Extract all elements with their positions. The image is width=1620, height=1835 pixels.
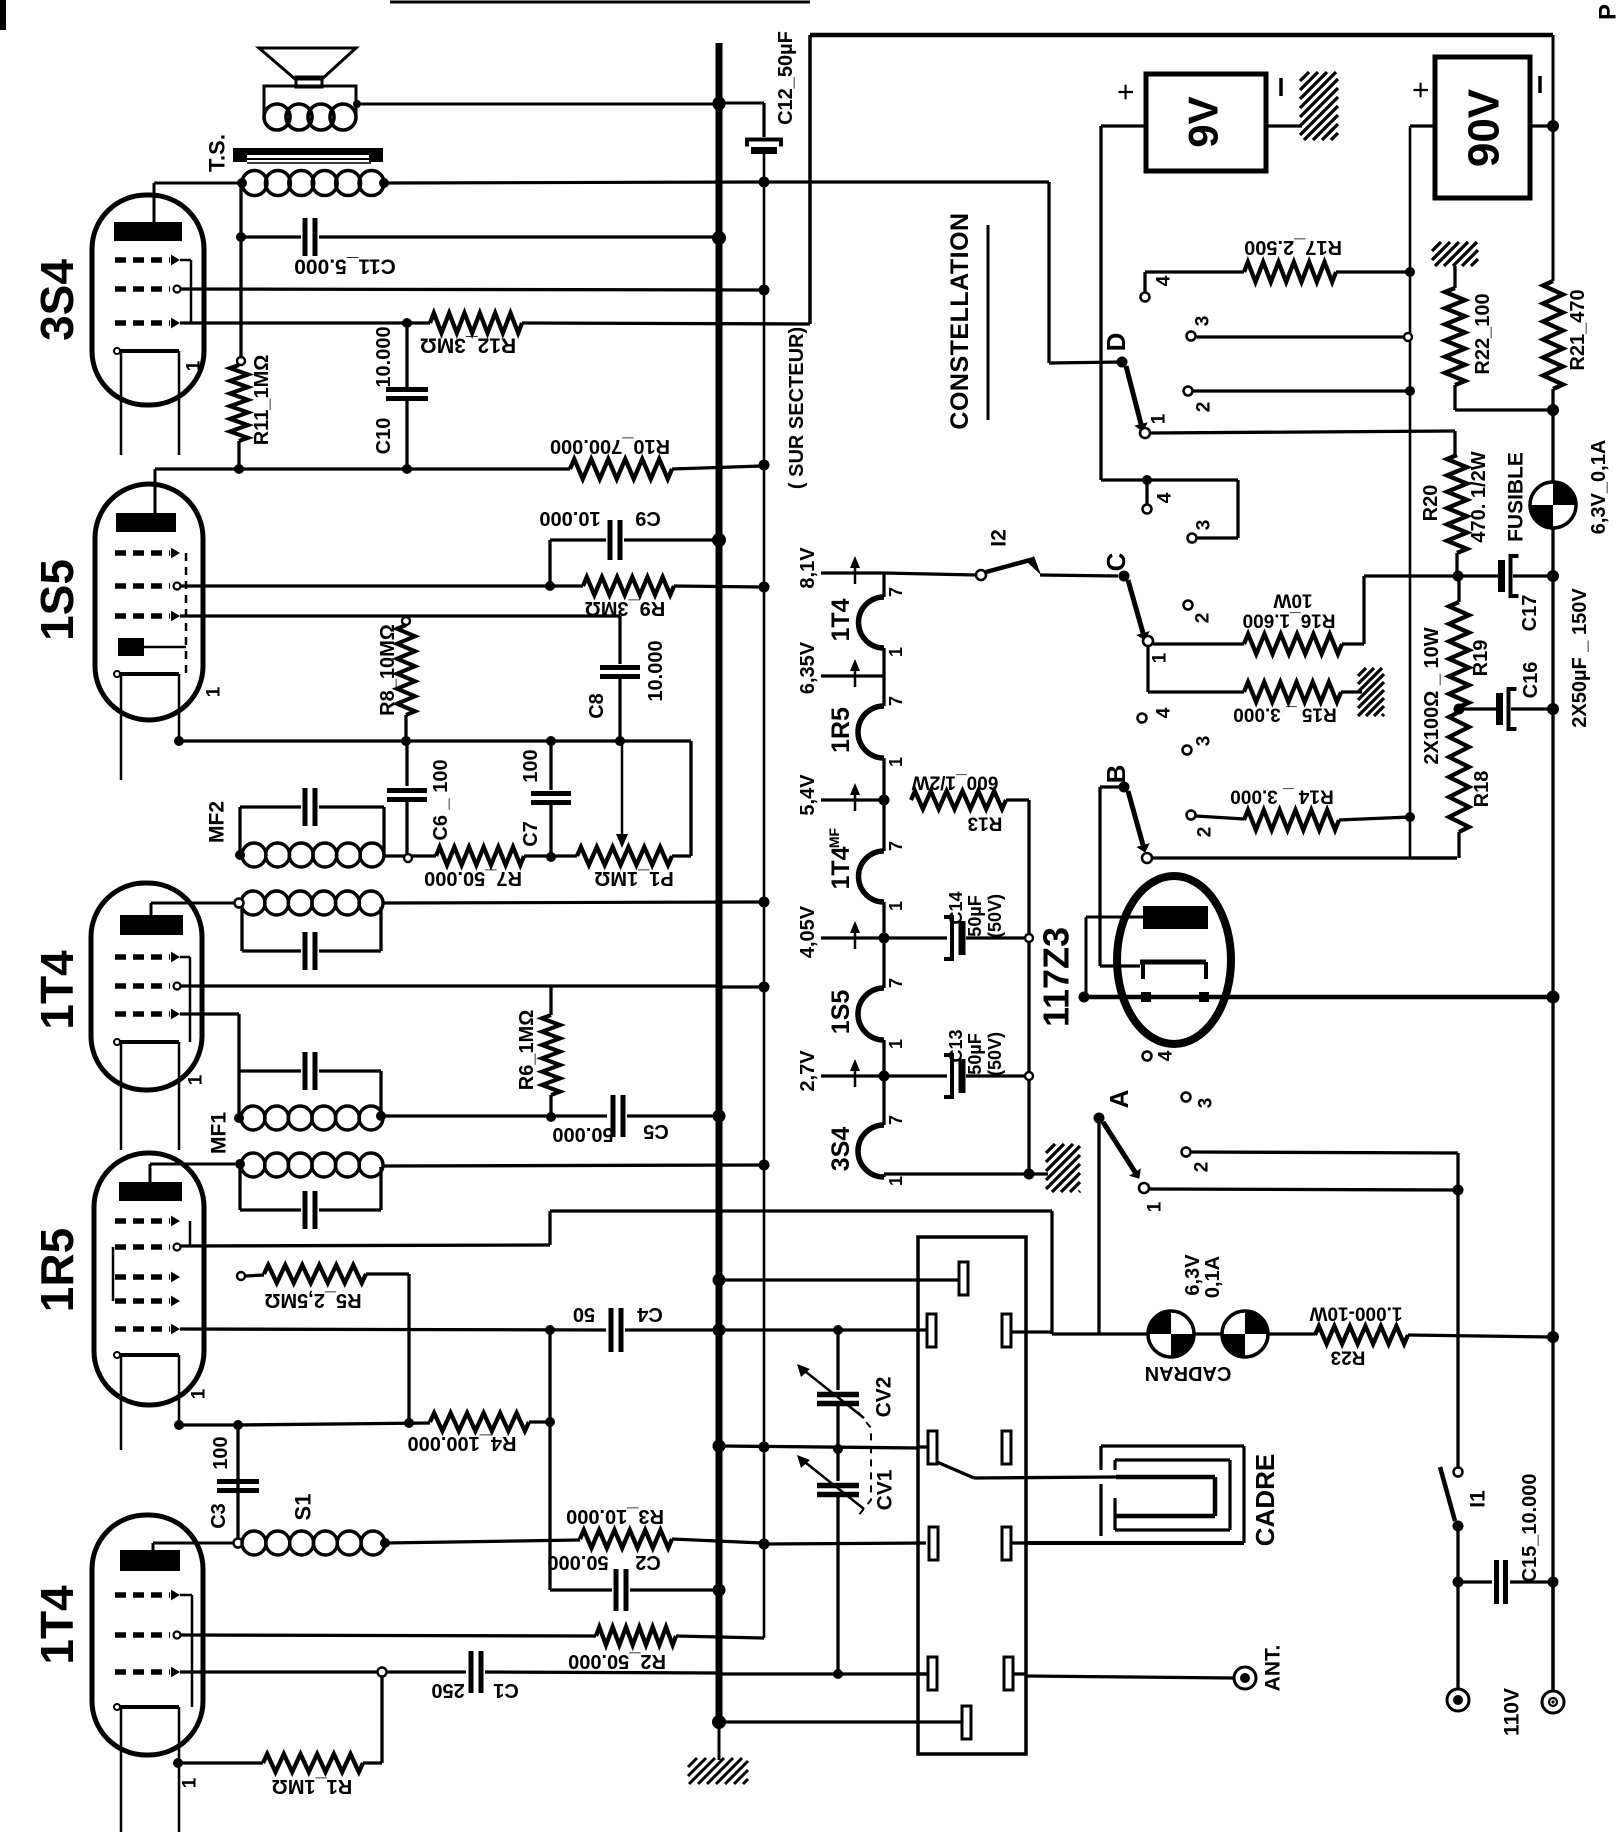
1R5 right tie — [189, 1221, 192, 1247]
junction coil right — [379, 178, 389, 188]
wire 1R5 fil to R4 — [179, 1423, 238, 1426]
resistor R13 — [911, 791, 1006, 809]
wire to 110V left — [1456, 1582, 1459, 1689]
wire heater output — [1084, 995, 1553, 1000]
svg-text:2,7V: 2,7V — [797, 1050, 819, 1092]
3S4 filament hump — [858, 1125, 884, 1177]
junction bus/C2 — [713, 1584, 726, 1597]
svg-text:1S5: 1S5 — [31, 559, 83, 641]
1T4b plate — [120, 1550, 180, 1571]
wire R3 to rail — [672, 1539, 762, 1543]
1T4b filament — [117, 1705, 179, 1709]
switch B contact 3 — [1183, 746, 1192, 755]
CV slot row2 left — [927, 1314, 936, 1347]
switch D contact 3 — [1187, 332, 1196, 341]
label 9V minus — [1279, 78, 1283, 96]
svg-text:MF2: MF2 — [206, 801, 229, 843]
wire 1S5 plate line — [155, 467, 570, 470]
svg-text:1: 1 — [886, 1176, 906, 1186]
wire R7 to P1 — [524, 854, 577, 857]
junction fil/R4 wire — [174, 1420, 184, 1430]
junction 5,4V — [879, 795, 890, 806]
svg-text:1: 1 — [189, 1388, 210, 1399]
svg-text:2: 2 — [1192, 1162, 1213, 1173]
svg-text:3: 3 — [1194, 520, 1215, 531]
svg-text:C: C — [1101, 552, 1131, 571]
svg-text:R10_700.000: R10_700.000 — [550, 435, 670, 457]
wire slot5 to ANT — [1013, 1672, 1026, 1675]
CV slot row4 left — [929, 1527, 938, 1560]
svg-text:C16: C16 — [1520, 662, 1542, 699]
resistor R10 — [570, 459, 672, 479]
1R5 grid row5 (dashed) — [115, 1326, 170, 1331]
label 90V minus — [1538, 76, 1542, 93]
junction right-rail/C17 — [1547, 570, 1559, 582]
CV slot row2 right — [1002, 1314, 1011, 1347]
svg-text:6,3V: 6,3V — [1182, 1254, 1204, 1296]
svg-text:CV1: CV1 — [874, 1469, 897, 1510]
capacitor C14 (electrolytic) — [884, 936, 947, 939]
svg-text:50.000: 50.000 — [552, 1123, 613, 1145]
junction C15 right — [1548, 1577, 1559, 1588]
svg-text:1S5: 1S5 — [827, 990, 855, 1035]
junction bus/CVrow — [713, 1440, 726, 1453]
terminal 110V left — [1447, 1689, 1469, 1711]
svg-text:R7_50.000: R7_50.000 — [424, 867, 522, 889]
chain bottom wire — [882, 1174, 885, 1177]
wire screen node — [179, 739, 691, 742]
svg-text:50µF: 50µF — [965, 895, 985, 936]
3S4 grid3 (dashed) — [115, 320, 170, 325]
svg-text:A: A — [1104, 1089, 1134, 1108]
capacitor C15 — [1458, 1580, 1492, 1583]
speaker basket — [264, 86, 356, 117]
svg-text:R23: R23 — [1331, 1347, 1366, 1368]
svg-text:(50V): (50V) — [985, 894, 1005, 938]
1R5 plate lead — [149, 1164, 152, 1182]
svg-text:R19: R19 — [1470, 640, 1492, 677]
terminal 110V right — [1542, 1691, 1564, 1713]
svg-text:ANT.: ANT. — [1262, 1645, 1285, 1692]
P1 wiper arrow — [621, 741, 624, 836]
svg-text:R4_100.000: R4_100.000 — [408, 1432, 517, 1454]
capacitor C7 — [549, 741, 552, 790]
svg-text:1: 1 — [886, 647, 906, 657]
wire 1T4b g3 line — [180, 1670, 378, 1673]
capacitor C6 — [405, 741, 408, 786]
svg-text:C10: C10 — [373, 418, 395, 455]
svg-text:2: 2 — [1193, 613, 1214, 624]
junction right-rail/90V- — [1547, 120, 1559, 132]
svg-text:110V: 110V — [1501, 1688, 1524, 1736]
battery 9V box — [1146, 74, 1266, 171]
junction R7/C7 — [546, 852, 556, 862]
junction MF1 prim left — [234, 1113, 244, 1123]
wire into slot5 — [919, 1672, 928, 1675]
wire 3S4 grid2 to 9V rail — [180, 289, 762, 290]
svg-text:C3: C3 — [208, 1503, 230, 1529]
1R5 filament — [117, 1353, 179, 1357]
CV slot row3 left — [928, 1431, 937, 1464]
wire g3 to R1 — [380, 1676, 383, 1763]
svg-text:T.S.: T.S. — [205, 134, 230, 172]
svg-text:470. 1/2W: 470. 1/2W — [1468, 451, 1490, 542]
capacitor C12 (electrolytic) — [762, 103, 765, 137]
capacitor C4 — [609, 1308, 614, 1352]
junction C15 left — [1453, 1577, 1464, 1588]
junction 90V-rail/D2 — [1405, 386, 1415, 396]
wire 1T4 g2 to rail — [180, 984, 717, 987]
resistor R1 — [178, 1761, 263, 1764]
3S4 plate — [114, 222, 182, 241]
chain node 4,05V — [882, 902, 885, 988]
svg-text:50µF: 50µF — [965, 1033, 985, 1074]
resistor R19 — [1449, 602, 1469, 707]
svg-text:3S4: 3S4 — [31, 259, 83, 341]
MF2 secondary coil — [241, 891, 265, 915]
1R5 grid row1 (dashed) — [115, 1218, 170, 1223]
speaker LS cone — [259, 48, 356, 79]
wire slot4 right — [1011, 1541, 1026, 1544]
resistor R7 — [436, 847, 524, 865]
svg-text:8,1V: 8,1V — [797, 547, 819, 589]
wire 1S5 g1 line — [180, 614, 620, 617]
switch D contact 1 — [1140, 428, 1150, 438]
svg-text:50: 50 — [573, 1303, 595, 1325]
svg-text:D: D — [1101, 333, 1131, 352]
wire 9V- to ground — [1266, 124, 1302, 127]
resistor R20 — [1447, 455, 1467, 553]
svg-text:+: + — [1110, 83, 1143, 101]
junction rail/R3 — [759, 1539, 770, 1550]
junction C10 top — [402, 318, 412, 328]
1T4MF filament hump — [859, 851, 884, 902]
svg-text:MF1: MF1 — [208, 1112, 231, 1154]
junction R11 bottom — [234, 464, 244, 474]
resistor R5 — [237, 1272, 245, 1280]
117Z3 plate bracket — [1086, 916, 1143, 919]
wire CV to CADRE — [974, 1477, 1116, 1478]
junction rail/1T4 g2 — [759, 982, 770, 993]
capacitor C2 — [550, 1588, 612, 1591]
wire into slot3 — [919, 1445, 928, 1448]
svg-text:2: 2 — [1195, 827, 1216, 838]
svg-text:I2: I2 — [988, 529, 1011, 547]
resistor R16 — [1244, 634, 1342, 654]
wire bus to dial lamps — [718, 1210, 720, 1212]
CV slot row3 right — [1002, 1431, 1011, 1464]
resistor R17 — [1244, 262, 1336, 282]
lamp FUSIBLE — [1530, 482, 1576, 528]
svg-text:90V: 90V — [1460, 88, 1509, 167]
wire 9V feed to switch D — [764, 180, 1049, 183]
chain node 5,4V — [882, 758, 885, 851]
junction C16 node — [1454, 704, 1465, 715]
junction fil/R1 — [173, 1758, 183, 1768]
svg-text:1T4: 1T4 — [827, 846, 855, 889]
svg-text:CV2: CV2 — [873, 1377, 896, 1418]
svg-text:9V: 9V — [1180, 96, 1227, 147]
switch D contact 4 — [1141, 293, 1150, 302]
MF1 primary coil — [241, 1106, 265, 1130]
junction rail/CVrow — [759, 1442, 770, 1453]
ground filament chain — [1044, 1142, 1047, 1145]
resistor R3 — [580, 1530, 672, 1548]
wire R14 to 90V rail — [1339, 817, 1410, 820]
svg-text:C5: C5 — [643, 1120, 669, 1142]
svg-text:R21_470: R21_470 — [1567, 289, 1589, 370]
svg-text:1T4: 1T4 — [827, 598, 855, 641]
wire R12 to 90V line — [522, 323, 810, 324]
svg-text:600_1/2W: 600_1/2W — [912, 772, 999, 793]
wire R9 to rail — [674, 586, 762, 587]
CV slot row4 right — [1002, 1527, 1011, 1560]
svg-text:P1_1MΩ: P1_1MΩ — [594, 867, 673, 889]
wire 1R5 g2 jog — [180, 1245, 550, 1246]
wire R17 to 90V rail — [1336, 270, 1410, 273]
switch A pivot rail — [1097, 1123, 1100, 1334]
wire main ground bus (vertical) — [716, 43, 723, 1722]
wire MF1 sec to rail — [383, 1165, 762, 1166]
svg-text:C9: C9 — [635, 507, 661, 529]
CADRE middle loop — [1115, 1458, 1230, 1461]
resistor R6 — [549, 986, 552, 1015]
svg-text:4,05V: 4,05V — [797, 905, 819, 958]
resistor R14 — [1244, 810, 1339, 830]
junction bus/C4 — [713, 1324, 726, 1337]
capacitor C10 — [405, 323, 408, 390]
1T4 plate lead — [150, 903, 153, 915]
junction right-rail/heater — [1547, 991, 1560, 1004]
svg-text:C1: C1 — [493, 1679, 519, 1701]
junction C8 node — [615, 736, 625, 746]
CV slot osc top — [959, 1262, 968, 1295]
junction 90V-rail/R14 — [1405, 812, 1415, 822]
3S4 grid1 (dashed) — [115, 257, 170, 262]
svg-text:(50V): (50V) — [985, 1032, 1005, 1076]
CV slot row5 right — [1004, 1657, 1013, 1690]
tube V0 1T4 envelope — [92, 1515, 203, 1755]
switch A contact 4 — [1143, 1052, 1152, 1061]
tube V3 1S5 envelope — [95, 484, 203, 720]
svg-text:+: + — [1405, 81, 1438, 99]
1T4b grid3 (dashed) — [115, 1669, 170, 1674]
1S5 internal tie — [185, 553, 188, 674]
svg-text:1: 1 — [886, 757, 906, 767]
svg-text:R16_1.600: R16_1.600 — [1243, 610, 1336, 631]
CV rotor diagonal — [937, 1462, 974, 1478]
1S5 filament — [117, 672, 179, 676]
CV slot row5 left — [928, 1657, 937, 1690]
junction MF1 sec left — [235, 1159, 245, 1169]
lamp CADRAN 2 — [1222, 1311, 1268, 1357]
svg-text:4: 4 — [1155, 492, 1176, 503]
chain node 2,7V — [882, 1040, 885, 1125]
junction CV2 top — [833, 1325, 843, 1335]
junction rail/3S4 g2 — [759, 285, 770, 296]
tube V5 117Z3 envelope — [1117, 876, 1231, 1044]
resistor R18 — [1449, 712, 1469, 832]
svg-text:3S4: 3S4 — [827, 1127, 855, 1172]
svg-text:R8_10MΩ: R8_10MΩ — [377, 624, 399, 716]
3S4 plate lead — [153, 183, 156, 222]
MF2 secondary cap — [240, 907, 243, 951]
junction rail/9V feed — [759, 177, 770, 188]
svg-text:R14 _ 3.000: R14 _ 3.000 — [1230, 786, 1334, 807]
svg-text:1T4: 1T4 — [31, 1585, 83, 1665]
wire slot2 to lamp feed — [1011, 1330, 1052, 1333]
junction C11 node — [236, 232, 246, 242]
MF2 primary coil — [242, 843, 266, 867]
wire bus to CV2/CV block — [719, 1328, 926, 1331]
resistor R21 — [1543, 281, 1563, 389]
junction MF2 left — [235, 850, 245, 860]
resistor R22 — [1430, 240, 1433, 243]
terminal ANT — [1234, 1667, 1256, 1689]
wire T.S. primary to 9V rail — [384, 182, 762, 183]
capacitor C13 (electrolytic) — [884, 1074, 947, 1077]
wire down to I1 — [1456, 1190, 1459, 1467]
wire 9V rail (vertical) — [763, 151, 766, 1638]
svg-text:6,35V: 6,35V — [797, 641, 819, 694]
CV gang link (dashed) — [858, 1412, 871, 1516]
1T4 grid2 (dashed) — [115, 983, 170, 988]
junction bus/slot1 — [713, 1274, 726, 1287]
1T4b grid2 (dashed) — [115, 1632, 170, 1637]
1R5 grid row2 (dashed) — [115, 1244, 170, 1249]
wire A1 right — [1149, 1189, 1458, 1190]
switch B wiper — [1119, 782, 1130, 793]
wire B2 to R14 — [1196, 816, 1244, 819]
tube V1 1R5 envelope — [94, 1153, 204, 1405]
svg-text:B: B — [1101, 765, 1131, 784]
wire D1 to R20 — [1150, 431, 1455, 433]
wire R23 to right rail — [1408, 1335, 1553, 1337]
wire bus to C12 — [719, 102, 764, 105]
resistor R8 — [402, 617, 410, 625]
117Z3 plate — [1143, 906, 1208, 929]
battery 90V box — [1435, 57, 1530, 198]
junction rail/MF1 — [759, 1160, 770, 1171]
wire R2 to rail — [676, 1636, 764, 1638]
svg-text:7: 7 — [886, 696, 906, 706]
117Z3 fil tap 1 — [1141, 992, 1151, 1002]
svg-text:4: 4 — [1156, 1050, 1177, 1061]
MF1 secondary coil — [241, 1153, 265, 1177]
wire bus to ground — [718, 1722, 721, 1760]
junction C4 tap — [1142, 475, 1152, 485]
junction C10 bottom — [402, 464, 412, 474]
wire S1 to R3 — [385, 1540, 580, 1543]
svg-text:6,3V_0,1A: 6,3V_0,1A — [1588, 440, 1610, 535]
1S5 grid3 (dashed) — [115, 613, 170, 618]
junction right-rail/R21-R22 — [1547, 404, 1559, 416]
junction right-rail/R23 — [1547, 1331, 1559, 1343]
117Z3 cathode feed — [1098, 787, 1101, 966]
resistor R23 — [1315, 1326, 1408, 1344]
wire MF2 sec to rail — [383, 902, 762, 903]
1T4 grid3 (dashed) — [115, 1011, 170, 1016]
transformer T.S. core — [234, 148, 383, 155]
svg-text:2X50µF _ 150V: 2X50µF _ 150V — [1569, 588, 1591, 728]
chain node 6,35V — [882, 648, 885, 706]
svg-text:R22_100: R22_100 — [1472, 293, 1494, 374]
1T4 grid1 (dashed) — [115, 954, 170, 959]
1T4 filament hump — [859, 597, 884, 648]
svg-text:1: 1 — [1150, 652, 1171, 663]
svg-text:R1_1MΩ: R1_1MΩ — [272, 1775, 353, 1797]
wire B1 to R18 — [1152, 856, 1457, 859]
capacitor C3 — [236, 1478, 239, 1539]
svg-text:R17_2.500: R17_2.500 — [1244, 236, 1342, 258]
switch I2 — [884, 573, 976, 575]
svg-text:3: 3 — [1194, 736, 1215, 747]
junction chain bottom — [1024, 1169, 1035, 1180]
svg-text:10.000: 10.000 — [645, 640, 667, 701]
svg-text:C13: C13 — [946, 1029, 966, 1062]
svg-text:4: 4 — [1154, 707, 1175, 718]
scan edge corner — [0, 0, 6, 30]
wire D2 to 90V rail — [1193, 389, 1410, 392]
trimmer CV2 — [836, 1330, 839, 1390]
svg-text:50.000: 50.000 — [547, 1551, 608, 1573]
switch C contact 1 — [1143, 636, 1153, 646]
wire rail to CV block — [764, 1543, 926, 1544]
svg-text:1.000-10W: 1.000-10W — [1309, 1303, 1402, 1324]
junction R6/C5 — [546, 1112, 556, 1122]
junction 2,7V — [879, 1071, 890, 1082]
scan edge top — [390, 1, 810, 4]
trimmer CV1 — [836, 1449, 839, 1481]
switch I1 — [1454, 1468, 1463, 1477]
1T4 plate — [120, 915, 183, 935]
svg-text:3: 3 — [1193, 316, 1214, 327]
svg-text:R18: R18 — [1471, 771, 1493, 808]
svg-text:R2_50.000: R2_50.000 — [568, 1650, 666, 1672]
svg-text:CADRAN: CADRAN — [1145, 1362, 1232, 1384]
svg-text:2: 2 — [1194, 402, 1215, 413]
svg-text:1: 1 — [886, 1039, 906, 1049]
svg-text:C4: C4 — [636, 1303, 662, 1325]
svg-text:C6 _ 100: C6 _ 100 — [430, 759, 452, 840]
wire 1R5 g5 line — [180, 1329, 606, 1330]
1T4b grid1 (dashed) — [115, 1592, 170, 1597]
svg-text:C11_5.000: C11_5.000 — [294, 255, 396, 278]
svg-text:3: 3 — [1196, 1098, 1217, 1109]
wire to R4 — [238, 1423, 430, 1425]
junction 90V-rail/R17 — [1405, 267, 1415, 277]
junction C7 node — [546, 736, 556, 746]
switch B contact 2 — [1187, 811, 1196, 820]
wire to 110V right — [1551, 1582, 1554, 1691]
junction C17 node — [1453, 571, 1464, 582]
junction plate bracket — [1079, 992, 1090, 1003]
1T4b internal tie — [191, 1595, 194, 1707]
svg-text:1T4: 1T4 — [31, 950, 83, 1030]
svg-text:S1: S1 — [291, 1494, 316, 1521]
capacitor C11 — [241, 235, 301, 238]
1R5 grid row3 (dashed) — [115, 1274, 170, 1279]
svg-text:FUSIBLE: FUSIBLE — [1505, 452, 1528, 542]
svg-text:R6_1MΩ: R6_1MΩ — [516, 1010, 538, 1091]
junction C9/R9 — [545, 581, 555, 591]
switch A contact 3 — [1182, 1093, 1191, 1102]
junction rail/R10 — [759, 460, 770, 471]
3S4 grid2 (dashed) — [115, 286, 170, 291]
junction coil left — [237, 178, 247, 188]
wire to ANT — [1026, 1676, 1233, 1678]
junction CV1 bottom — [833, 1669, 843, 1679]
